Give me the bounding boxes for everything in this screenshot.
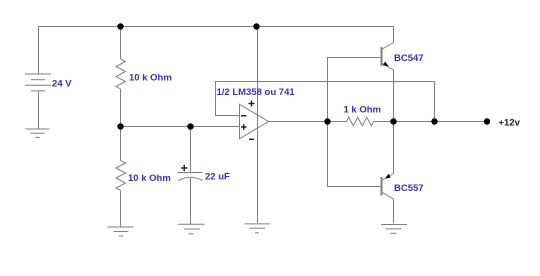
svg-text:BC557: BC557 (394, 183, 424, 194)
svg-text:1 k Ohm: 1 k Ohm (344, 105, 382, 116)
svg-text:10 k Ohm: 10 k Ohm (129, 73, 172, 84)
svg-text:+12v: +12v (499, 118, 521, 129)
svg-text:10 k Ohm: 10 k Ohm (128, 173, 171, 184)
svg-text:1/2 LM358 ou 741: 1/2 LM358 ou 741 (217, 87, 296, 98)
svg-text:24 V: 24 V (52, 79, 72, 90)
svg-text:BC547: BC547 (394, 53, 424, 64)
svg-text:22 uF: 22 uF (205, 172, 230, 183)
